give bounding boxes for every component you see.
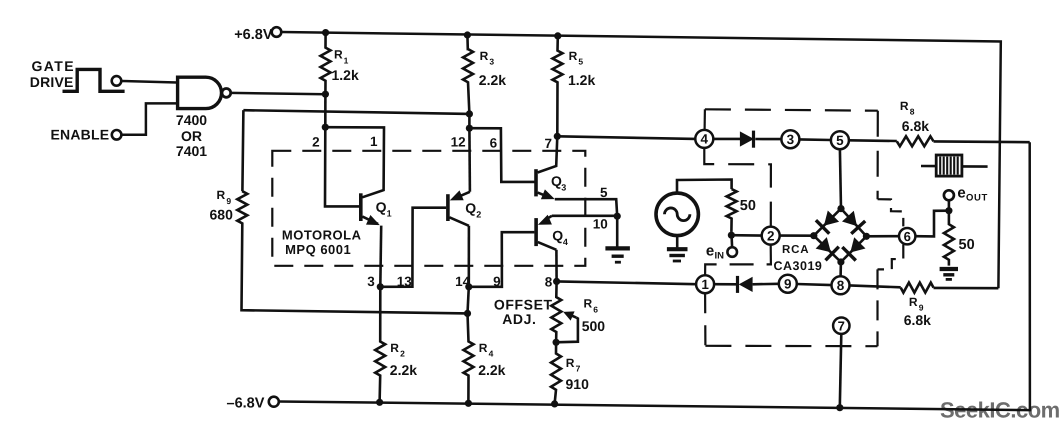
ground at pin 10 [616,216,619,246]
node 5/10 junction dot [614,213,621,220]
svg-text:OUT: OUT [966,193,988,204]
svg-text:2: 2 [400,349,405,359]
svg-text:5: 5 [578,57,583,67]
potentiometer R6 500 [551,281,561,342]
pad 3 [781,130,799,148]
svg-text:50: 50 [959,237,975,253]
transistor Q3 [534,169,538,196]
junction dot pin8 node [553,278,560,285]
resistor R7 910 [551,342,561,404]
bridge left vertex dot [810,232,817,239]
svg-text:8: 8 [837,278,845,293]
junction dot e_in [728,232,735,239]
e_out node dot [945,207,952,214]
svg-text:3: 3 [561,183,566,193]
wire pad5 to R8 [849,139,897,142]
svg-text:7400: 7400 [176,112,207,128]
svg-text:e: e [957,185,965,202]
junction dot rail R3 [464,31,471,38]
svg-text:6: 6 [490,136,498,151]
resistor 50 input [727,189,737,232]
resistor R9 680 [237,110,467,313]
svg-text:R: R [217,188,226,202]
RCA box right edge lower [876,269,878,346]
diode D5 [740,131,754,146]
svg-text:2: 2 [476,210,481,220]
bridge diode D1 (5 to 2) [814,209,841,236]
svg-text:R: R [334,48,343,62]
svg-text:1.2k: 1.2k [332,67,359,83]
svg-text:e: e [706,242,714,259]
bridge top vertex dot [837,205,844,212]
RCA box left edge lower [704,293,707,345]
svg-text:6.8k: 6.8k [902,118,929,134]
junction dot rail pad7 [836,404,843,411]
wire Q1 emitter pin3 [379,226,383,287]
transistor Q2 [446,194,450,221]
junction dot rail R5 [554,32,561,39]
svg-text:9: 9 [226,196,231,206]
transistor Q4 [534,218,538,246]
svg-text:7: 7 [545,136,553,151]
wire enable to NAND input [122,103,178,134]
svg-text:CA3019: CA3019 [774,259,823,273]
svg-text:R: R [569,49,578,63]
wire node A to pin2 junction [324,94,327,127]
resistor R4 [464,313,474,403]
junction dot pin7 node [554,133,561,140]
svg-text:2: 2 [767,228,775,243]
svg-text:MOTOROLA: MOTOROLA [282,228,362,243]
wire pin12 down to Q2 emitter [468,128,471,192]
e_out terminal [948,200,951,211]
svg-text:ENABLE: ENABLE [51,127,110,143]
wire gate drive to NAND input [121,81,177,83]
pad 9 [779,275,797,293]
RCA box bottom edge [705,345,877,348]
RCA box left edge upper [703,109,706,130]
svg-text:12: 12 [451,135,466,150]
svg-text:6: 6 [904,229,911,244]
wire pad1 to diode D6 [714,283,737,286]
+6.8V rail wire with right-side feedback drop [281,32,1001,288]
e_in terminal [730,238,733,247]
wire pin7 node to pad 4 [557,136,695,139]
wire pin14 to R9 node [468,287,469,314]
node A dot (NAND out / R1) [322,91,329,98]
wire NAND output to node A [231,93,326,94]
ground at e_out [940,267,958,271]
wire pin8 node to pad 1 [557,281,697,284]
bridge diode D4 (6 to 8) [841,236,867,262]
wire e_in node to pad2 [731,234,761,237]
svg-text:1.2k: 1.2k [568,72,595,88]
pad 5 [831,131,849,149]
resistor R2 [375,287,385,403]
wire Q2 base pin13 [380,208,446,287]
wire source to 50 ohm top [677,180,732,194]
wire right vertex to pad6 [866,235,899,238]
svg-text:OFFSET: OFFSET [494,296,553,312]
wire R9 to feedback drop [934,287,999,290]
bridge diode D3 (2 to 8) [814,236,841,262]
svg-text:5: 5 [600,185,608,200]
wire pad4 to diode D5 [713,138,740,141]
pad 7 [833,318,849,334]
svg-text:R: R [480,49,489,63]
-6.8V terminal [269,397,279,407]
junction dot rail R1 [322,29,329,36]
pad 4 [695,130,713,148]
sine source [656,193,698,235]
wire node to Q4 emitter [552,215,617,218]
MPQ6001 package dashed box [272,151,585,266]
wire pad7 to -6.8V rail [840,334,842,408]
svg-text:2.2k: 2.2k [390,362,417,378]
RCA box input notch [704,148,771,227]
wire pad3 to pad5 [799,138,831,141]
svg-text:500: 500 [582,318,606,334]
wire diode D6 to pad9 [753,282,779,285]
svg-text:DRIVE: DRIVE [30,74,74,90]
svg-text:6.8k: 6.8k [904,312,931,328]
svg-text:Q: Q [552,227,563,243]
resistor R1 [321,33,331,95]
RCA box top edge [705,109,878,110]
transistor Q1 [359,193,363,221]
svg-text:+6.8V: +6.8V [234,27,273,43]
svg-text:910: 910 [566,376,590,392]
svg-text:R: R [479,341,488,355]
gate drive pulse symbol [63,69,125,91]
resistor R8 [897,136,934,146]
svg-text:50: 50 [740,198,756,214]
ground at source [676,236,679,248]
wire pin2 down to Q1 base [325,127,359,206]
svg-text:R: R [390,341,399,355]
svg-text:8: 8 [545,274,553,289]
svg-text:7401: 7401 [176,143,207,159]
svg-text:IN: IN [715,250,725,261]
svg-text:Q: Q [376,199,387,215]
svg-text:680: 680 [210,207,234,223]
wire Q2 collector pin14 [467,226,470,287]
svg-text:1: 1 [370,134,378,149]
+6.8V terminal [272,27,282,37]
svg-text:9: 9 [784,277,792,292]
svg-text:1: 1 [344,56,349,66]
junction dot R3/R9 wire [466,110,473,117]
svg-text:–6.8V: –6.8V [227,395,265,411]
resistor 50 output [944,211,954,266]
NAND gate U1 7400 [178,77,222,108]
svg-text:R: R [584,297,593,311]
junction dot pin1/pin2 split [322,124,329,131]
svg-text:R: R [566,356,575,370]
svg-text:4: 4 [563,237,568,247]
svg-text:4: 4 [489,349,494,359]
gate drive input terminal [112,76,122,86]
junction dot rail R2 [376,399,383,406]
wire R9 top to R3 bottom node [243,110,469,114]
delay line / ferrite bead [921,165,936,168]
wire pad6 to e_out node [915,211,949,237]
svg-text:7: 7 [576,364,581,374]
junction dot pin3/pin13 [377,283,384,290]
svg-text:1: 1 [701,277,709,292]
wire pad8 to R9 [849,285,900,287]
svg-text:OR: OR [181,128,202,144]
svg-text:R: R [900,99,909,113]
junction dot pin12/pin6 split [466,125,473,132]
svg-text:5: 5 [836,133,844,148]
svg-text:10: 10 [593,216,608,231]
svg-text:GATE: GATE [32,58,75,74]
svg-text:6: 6 [593,304,598,314]
svg-text:RCA: RCA [782,244,809,256]
svg-text:4: 4 [701,132,709,147]
bridge wire pad5 to top vertex [840,149,841,208]
pad 8 [832,276,850,294]
svg-text:3: 3 [787,132,795,147]
svg-text:3: 3 [367,274,375,289]
wire R3 node to pin12/pin6 split [468,114,471,128]
bridge bottom vertex dot [837,258,844,265]
svg-text:MPQ 6001: MPQ 6001 [285,242,351,257]
resistor R5 [553,36,563,136]
svg-text:1: 1 [387,208,392,218]
svg-text:R: R [909,295,918,309]
diode D6 [739,277,753,292]
resistor R9 6.8k [901,283,934,293]
bridge right vertex dot [863,233,870,240]
wire R8 to right drop [934,140,1030,143]
enable input terminal [112,130,122,140]
wire pin6 to Q3 base [469,128,534,182]
junction dot pin14/pin9 [465,283,472,290]
svg-text:2.2k: 2.2k [478,362,505,378]
junction dot R6/R7 [553,339,560,346]
wire pin1 to Q1 collector [325,127,384,197]
-6.8V rail wire [279,142,1030,410]
svg-text:7: 7 [838,319,845,334]
svg-text:2.2k: 2.2k [479,72,506,88]
pad 2 [762,227,780,245]
wire pin7 node to Q3 collector [538,136,558,172]
wire diode D5 to pad3 [755,138,781,141]
junction dot rail R4 [465,400,472,407]
resistor R3 [463,35,473,114]
svg-text:Q: Q [465,200,476,216]
RCA box output notch [878,199,904,226]
svg-text:2: 2 [312,134,320,149]
pad 6 [899,228,915,244]
pad 1 [696,275,714,293]
wire bottom vertex to pad8 [839,262,842,276]
bridge diode D2 (5 to 6) [841,209,866,237]
svg-text:3: 3 [489,57,494,67]
junction dot rail R7 [551,400,558,407]
RCA box right edge upper [876,111,878,200]
wire Q4 base pin9 [469,232,535,287]
junction dot pin14/R9 [464,310,471,317]
svg-text:8: 8 [910,107,915,117]
svg-text:ADJ.: ADJ. [502,311,536,327]
wire pad9 to pad8 [797,284,832,285]
wire left vertex to pad2 [780,234,814,237]
wire Q3 emitter to node 5/10 [555,199,617,216]
R6 wiper arrow [559,318,578,343]
wire Q4 collector pin8 node [555,250,558,282]
